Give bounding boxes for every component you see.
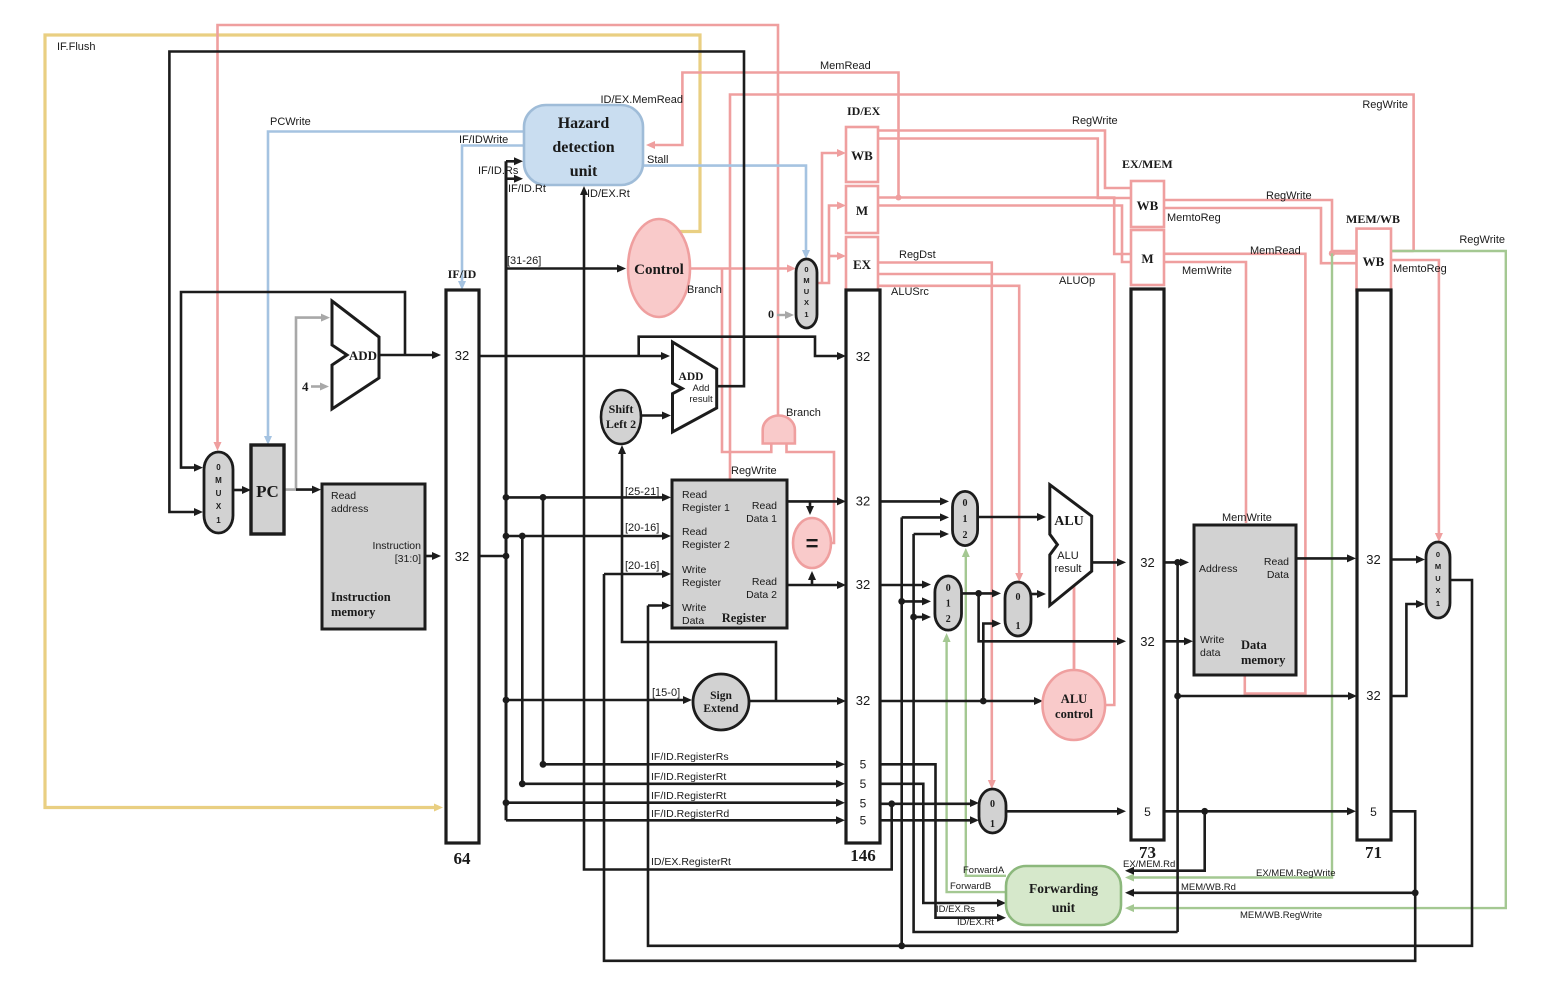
svg-text:MemWrite: MemWrite xyxy=(1222,512,1272,524)
svg-text:RegWrite: RegWrite xyxy=(1362,99,1408,111)
svg-text:Read: Read xyxy=(752,576,777,588)
svg-text:Data: Data xyxy=(1267,569,1289,581)
svg-text:5: 5 xyxy=(1370,805,1377,819)
svg-text:0: 0 xyxy=(990,799,995,810)
svg-text:X: X xyxy=(1435,586,1440,595)
svg-text:memory: memory xyxy=(1241,653,1286,667)
svg-text:ALU: ALU xyxy=(1057,550,1078,562)
svg-text:1: 1 xyxy=(990,819,995,830)
svg-text:Shift: Shift xyxy=(609,402,634,416)
svg-text:ID/EX.Rt: ID/EX.Rt xyxy=(587,188,630,200)
svg-text:RegDst: RegDst xyxy=(899,249,936,261)
svg-text:RegWrite: RegWrite xyxy=(1072,115,1118,127)
svg-text:WB: WB xyxy=(1363,254,1385,269)
svg-text:32: 32 xyxy=(1140,555,1154,570)
svg-text:Hazard: Hazard xyxy=(558,115,610,132)
svg-text:Left 2: Left 2 xyxy=(606,417,636,431)
svg-text:Read: Read xyxy=(331,490,356,502)
svg-text:Data 1: Data 1 xyxy=(746,513,777,525)
svg-text:RegWrite: RegWrite xyxy=(1266,190,1312,202)
svg-text:32: 32 xyxy=(1140,634,1154,649)
svg-text:5: 5 xyxy=(1144,805,1151,819)
svg-text:32: 32 xyxy=(856,494,870,509)
svg-text:Data 2: Data 2 xyxy=(746,589,777,601)
svg-text:ForwardB: ForwardB xyxy=(950,881,991,892)
svg-text:4: 4 xyxy=(302,379,309,394)
svg-text:MEM/WB.Rd: MEM/WB.Rd xyxy=(1181,882,1236,893)
svg-text:RegWrite: RegWrite xyxy=(1459,234,1505,246)
svg-text:EX: EX xyxy=(853,257,872,272)
svg-text:Stall: Stall xyxy=(647,154,668,166)
svg-text:5: 5 xyxy=(860,758,867,772)
svg-text:IF/ID: IF/ID xyxy=(448,267,477,281)
svg-text:Read: Read xyxy=(682,526,707,538)
svg-text:result: result xyxy=(1055,563,1082,575)
svg-text:IF/IDWrite: IF/IDWrite xyxy=(459,134,508,146)
svg-text:X: X xyxy=(804,298,809,307)
svg-text:detection: detection xyxy=(552,139,614,156)
svg-text:64: 64 xyxy=(454,849,472,868)
svg-text:ID/EX.MemRead: ID/EX.MemRead xyxy=(600,94,683,106)
svg-text:EX/MEM: EX/MEM xyxy=(1122,157,1173,171)
svg-text:M: M xyxy=(215,476,222,485)
svg-text:Extend: Extend xyxy=(703,703,739,715)
svg-text:32: 32 xyxy=(856,349,870,364)
svg-text:ID/EX: ID/EX xyxy=(847,104,881,118)
svg-text:0: 0 xyxy=(963,498,968,509)
svg-text:U: U xyxy=(804,287,809,296)
svg-text:5: 5 xyxy=(860,777,867,791)
svg-text:Write: Write xyxy=(682,564,706,576)
svg-text:32: 32 xyxy=(1366,688,1380,703)
svg-text:1: 1 xyxy=(1016,621,1021,632)
svg-text:Data: Data xyxy=(682,615,704,627)
svg-text:Address: Address xyxy=(1199,563,1238,575)
svg-text:Branch: Branch xyxy=(687,284,722,296)
svg-text:Register: Register xyxy=(722,611,767,625)
svg-text:Data: Data xyxy=(1241,638,1267,652)
svg-text:Instruction: Instruction xyxy=(331,590,391,604)
svg-text:[31-26]: [31-26] xyxy=(507,255,541,267)
svg-text:Instruction: Instruction xyxy=(373,540,422,552)
svg-text:data: data xyxy=(1200,647,1221,659)
svg-text:Sign: Sign xyxy=(710,690,732,702)
svg-text:IF/ID.RegisterRt: IF/ID.RegisterRt xyxy=(651,790,726,802)
svg-text:32: 32 xyxy=(1366,552,1380,567)
svg-text:Write: Write xyxy=(682,602,706,614)
svg-text:M: M xyxy=(1435,562,1441,571)
svg-text:[20-16]: [20-16] xyxy=(625,560,659,572)
svg-text:ADD: ADD xyxy=(679,371,704,383)
svg-text:0: 0 xyxy=(1436,550,1440,559)
svg-text:=: = xyxy=(806,531,819,556)
svg-text:PC: PC xyxy=(256,482,279,501)
svg-text:ALUSrc: ALUSrc xyxy=(891,286,929,298)
svg-text:1: 1 xyxy=(1436,599,1440,608)
svg-text:IF/ID.RegisterRs: IF/ID.RegisterRs xyxy=(651,751,729,763)
svg-text:M: M xyxy=(1141,251,1153,266)
svg-text:Register 2: Register 2 xyxy=(682,539,730,551)
svg-text:MEM/WB.RegWrite: MEM/WB.RegWrite xyxy=(1240,910,1322,921)
svg-text:MemtoReg: MemtoReg xyxy=(1393,263,1447,275)
svg-text:146: 146 xyxy=(850,846,876,865)
svg-text:MemRead: MemRead xyxy=(1250,245,1301,257)
svg-text:0: 0 xyxy=(1016,592,1021,603)
svg-text:1: 1 xyxy=(946,599,951,610)
svg-text:WB: WB xyxy=(851,148,873,163)
svg-text:Read: Read xyxy=(752,500,777,512)
svg-text:EX/MEM.Rd: EX/MEM.Rd xyxy=(1123,859,1175,870)
svg-text:U: U xyxy=(216,489,222,498)
svg-text:5: 5 xyxy=(860,797,867,811)
svg-text:ALU: ALU xyxy=(1054,514,1084,529)
svg-text:X: X xyxy=(216,502,222,511)
svg-text:M: M xyxy=(803,276,809,285)
svg-text:EX/MEM.RegWrite: EX/MEM.RegWrite xyxy=(1256,868,1336,879)
svg-text:1: 1 xyxy=(216,516,221,525)
svg-text:unit: unit xyxy=(1052,900,1076,915)
svg-text:Read: Read xyxy=(682,489,707,501)
svg-text:32: 32 xyxy=(856,693,870,708)
svg-text:result: result xyxy=(689,394,713,405)
svg-text:2: 2 xyxy=(946,614,951,625)
svg-text:U: U xyxy=(1435,574,1440,583)
svg-text:IF/ID.RegisterRt: IF/ID.RegisterRt xyxy=(651,771,726,783)
svg-text:IF/ID.Rt: IF/ID.Rt xyxy=(508,183,546,195)
svg-text:MemtoReg: MemtoReg xyxy=(1167,212,1221,224)
svg-text:Control: Control xyxy=(634,262,684,278)
svg-text:ID/EX.Rt: ID/EX.Rt xyxy=(957,917,994,928)
svg-text:IF/ID.RegisterRd: IF/ID.RegisterRd xyxy=(651,808,729,820)
svg-text:1: 1 xyxy=(804,310,808,319)
svg-text:MemRead: MemRead xyxy=(820,60,871,72)
svg-text:IF/ID.Rs: IF/ID.Rs xyxy=(478,165,519,177)
svg-text:PCWrite: PCWrite xyxy=(270,116,311,128)
svg-text:71: 71 xyxy=(1365,843,1382,862)
svg-text:Branch: Branch xyxy=(786,407,821,419)
svg-text:RegWrite: RegWrite xyxy=(731,465,777,477)
svg-text:IF.Flush: IF.Flush xyxy=(57,41,96,53)
svg-text:Write: Write xyxy=(1200,634,1224,646)
svg-text:Forwarding: Forwarding xyxy=(1029,881,1098,896)
svg-text:ID/EX.RegisterRt: ID/EX.RegisterRt xyxy=(651,856,731,868)
svg-text:Register: Register xyxy=(682,577,722,589)
svg-text:control: control xyxy=(1055,707,1093,721)
svg-text:ALUOp: ALUOp xyxy=(1059,275,1095,287)
svg-text:0: 0 xyxy=(946,583,951,594)
svg-text:ALU: ALU xyxy=(1061,692,1087,706)
svg-text:Add: Add xyxy=(693,383,710,394)
svg-text:0: 0 xyxy=(216,463,221,472)
svg-text:[20-16]: [20-16] xyxy=(625,522,659,534)
svg-text:0: 0 xyxy=(768,307,774,321)
svg-text:M: M xyxy=(856,203,868,218)
svg-text:1: 1 xyxy=(963,514,968,525)
svg-text:[15-0]: [15-0] xyxy=(652,687,680,699)
svg-text:unit: unit xyxy=(570,163,598,180)
svg-text:32: 32 xyxy=(856,577,870,592)
svg-text:32: 32 xyxy=(455,348,469,363)
svg-text:ADD: ADD xyxy=(349,348,377,363)
svg-text:[25-21]: [25-21] xyxy=(625,486,659,498)
svg-text:ID/EX.Rs: ID/EX.Rs xyxy=(936,904,975,915)
svg-text:32: 32 xyxy=(455,549,469,564)
svg-text:WB: WB xyxy=(1137,198,1159,213)
svg-text:2: 2 xyxy=(963,530,968,541)
svg-text:Read: Read xyxy=(1264,556,1289,568)
svg-text:[31:0]: [31:0] xyxy=(395,553,421,565)
svg-text:MemWrite: MemWrite xyxy=(1182,265,1232,277)
svg-text:0: 0 xyxy=(804,265,808,274)
svg-text:address: address xyxy=(331,503,368,515)
svg-text:5: 5 xyxy=(860,814,867,828)
svg-text:MEM/WB: MEM/WB xyxy=(1346,212,1400,226)
svg-text:ForwardA: ForwardA xyxy=(963,865,1005,876)
svg-text:memory: memory xyxy=(331,605,376,619)
svg-text:Register 1: Register 1 xyxy=(682,502,730,514)
